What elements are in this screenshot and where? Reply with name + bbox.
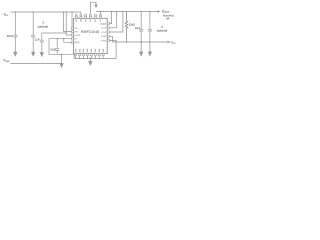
- svg-text:GND: GND: [103, 48, 105, 53]
- svg-text:22µF: 22µF: [135, 27, 141, 30]
- svg-text:AGND: AGND: [74, 41, 80, 44]
- wire AGND pin5: [64, 39, 72, 43]
- ground symbol C7: [148, 52, 152, 56]
- top pin circle 6: [100, 14, 102, 16]
- svg-text:PGND: PGND: [101, 40, 107, 42]
- svg-text:10µF: 10µF: [7, 34, 14, 38]
- svg-text:SW: SW: [90, 19, 92, 22]
- wire VIN drop to pin2: [63, 12, 71, 32]
- wire top flag arrow: [90, 2, 96, 14]
- capacitor C1 10uF: [13, 12, 17, 52]
- pin box left 1: [72, 27, 74, 29]
- pin box top 5: [95, 16, 97, 18]
- wire ground stem thermal pad: [89, 58, 91, 61]
- arrowhead flag SW: [95, 5, 98, 8]
- pin box right 2: [107, 27, 109, 29]
- svg-text:(optional): (optional): [157, 30, 168, 33]
- wire VOUT rail: [96, 11, 158, 13]
- ground symbol VSNS rail: [60, 63, 64, 67]
- pin box left 4: [72, 38, 74, 40]
- pin box right 5: [107, 40, 109, 42]
- svg-text:10nF: 10nF: [50, 49, 56, 52]
- svg-text:GND: GND: [75, 48, 77, 53]
- svg-text:GND: GND: [83, 48, 85, 53]
- pin box top 4: [89, 16, 91, 18]
- wire optional cap to pin: [42, 32, 66, 34]
- capacitor C2 1uF: [31, 12, 35, 52]
- pin box top 3: [85, 16, 87, 18]
- junction dots SS loop: [63, 38, 64, 39]
- wire PGND pin5 riser to bus: [109, 41, 116, 59]
- pin box bottom 2: [79, 54, 81, 56]
- svg-text:10kΩ: 10kΩ: [129, 22, 135, 26]
- svg-text:GND: GND: [99, 48, 101, 53]
- ground symbol C6: [139, 52, 143, 56]
- ground symbol left C1: [13, 52, 17, 56]
- svg-text:4A: 4A: [166, 17, 169, 21]
- capacitor C5 10nF: [55, 39, 59, 55]
- pin box bottom 1: [75, 54, 77, 56]
- svg-text:GND: GND: [95, 48, 97, 53]
- pin box right 4: [107, 35, 109, 37]
- chip U1 body: [74, 18, 108, 53]
- wire top pin VOUT stub: [100, 12, 102, 15]
- wire top pin VIN stub: [80, 12, 82, 14]
- wire PGND pin4: [109, 36, 112, 42]
- wire SS pin4 loop: [49, 39, 74, 59]
- pin box bottom 3: [83, 54, 85, 56]
- capacitor C3 optional: [40, 33, 44, 52]
- wire VIN rail end drop to pin1: [71, 12, 74, 27]
- pin box left 2: [72, 31, 74, 33]
- pin box left 5: [72, 41, 74, 43]
- arrowhead VOS: [168, 41, 171, 43]
- svg-text:GND: GND: [91, 48, 93, 53]
- pin box right 3: [107, 31, 109, 33]
- pin box top 1: [75, 16, 77, 18]
- svg-text:VOUT: VOUT: [101, 28, 107, 30]
- pin box bottom 7: [98, 54, 100, 56]
- svg-text:C: C: [42, 20, 44, 24]
- pin box top 6: [100, 16, 102, 18]
- wire VOUT pin1 tie: [109, 12, 111, 24]
- svg-text:GND: GND: [87, 48, 89, 53]
- arrowhead VOUT: [158, 10, 161, 12]
- top pin circle 3: [85, 14, 87, 16]
- wire ground stem C6: [140, 42, 142, 52]
- wire bottom pin stubs: [76, 56, 104, 59]
- capacitor C6 22uF: [139, 12, 143, 43]
- svg-text:VOUT: VOUT: [100, 24, 107, 26]
- junction dots PGND line: [115, 41, 116, 42]
- top pin circle 5: [95, 14, 97, 16]
- resistor R1 10k: [125, 12, 128, 43]
- top pin circle 1: [75, 14, 77, 16]
- pin box top 2: [80, 16, 82, 18]
- ground symbol left C2: [31, 52, 35, 56]
- pin box bottom 8: [102, 54, 104, 56]
- pin box left 3: [72, 34, 74, 36]
- top pin circle 2: [80, 14, 82, 16]
- junction dots VIN rail: [15, 11, 16, 12]
- wire VOUT pin3 tie: [109, 12, 123, 33]
- capacitor C7 optional output: [148, 12, 152, 43]
- wire VIN rail: [11, 11, 81, 13]
- svg-text:RMP21045: RMP21045: [81, 30, 100, 34]
- ground symbol thermal pad: [88, 61, 92, 65]
- svg-text:GND: GND: [79, 48, 81, 53]
- svg-text:MODE: MODE: [74, 35, 80, 37]
- wire VIN drop to pin3: [66, 12, 71, 35]
- ground symbol left C3: [40, 52, 44, 56]
- svg-text:VOUT: VOUT: [101, 32, 107, 34]
- svg-text:PGND: PGND: [101, 36, 107, 38]
- top pin circle 4: [89, 14, 91, 16]
- wire VOUT pin2 tie: [109, 12, 116, 28]
- pin box right 1: [107, 23, 109, 25]
- pin box bottom 4: [86, 54, 88, 56]
- wire ground stem C7: [149, 42, 151, 52]
- junction dot bus: [90, 58, 91, 59]
- wire bottom VSNS rail: [11, 54, 62, 63]
- svg-text:(optional): (optional): [38, 26, 49, 29]
- wire PGND line: [112, 41, 167, 43]
- pin box bottom 6: [94, 54, 96, 56]
- svg-text:1µF: 1µF: [35, 37, 40, 41]
- pin box bottom 5: [90, 54, 92, 56]
- junction dots VOUT rail: [100, 11, 101, 12]
- junction dot optional cap: [66, 32, 67, 33]
- wire bottom pin bus: [74, 57, 116, 59]
